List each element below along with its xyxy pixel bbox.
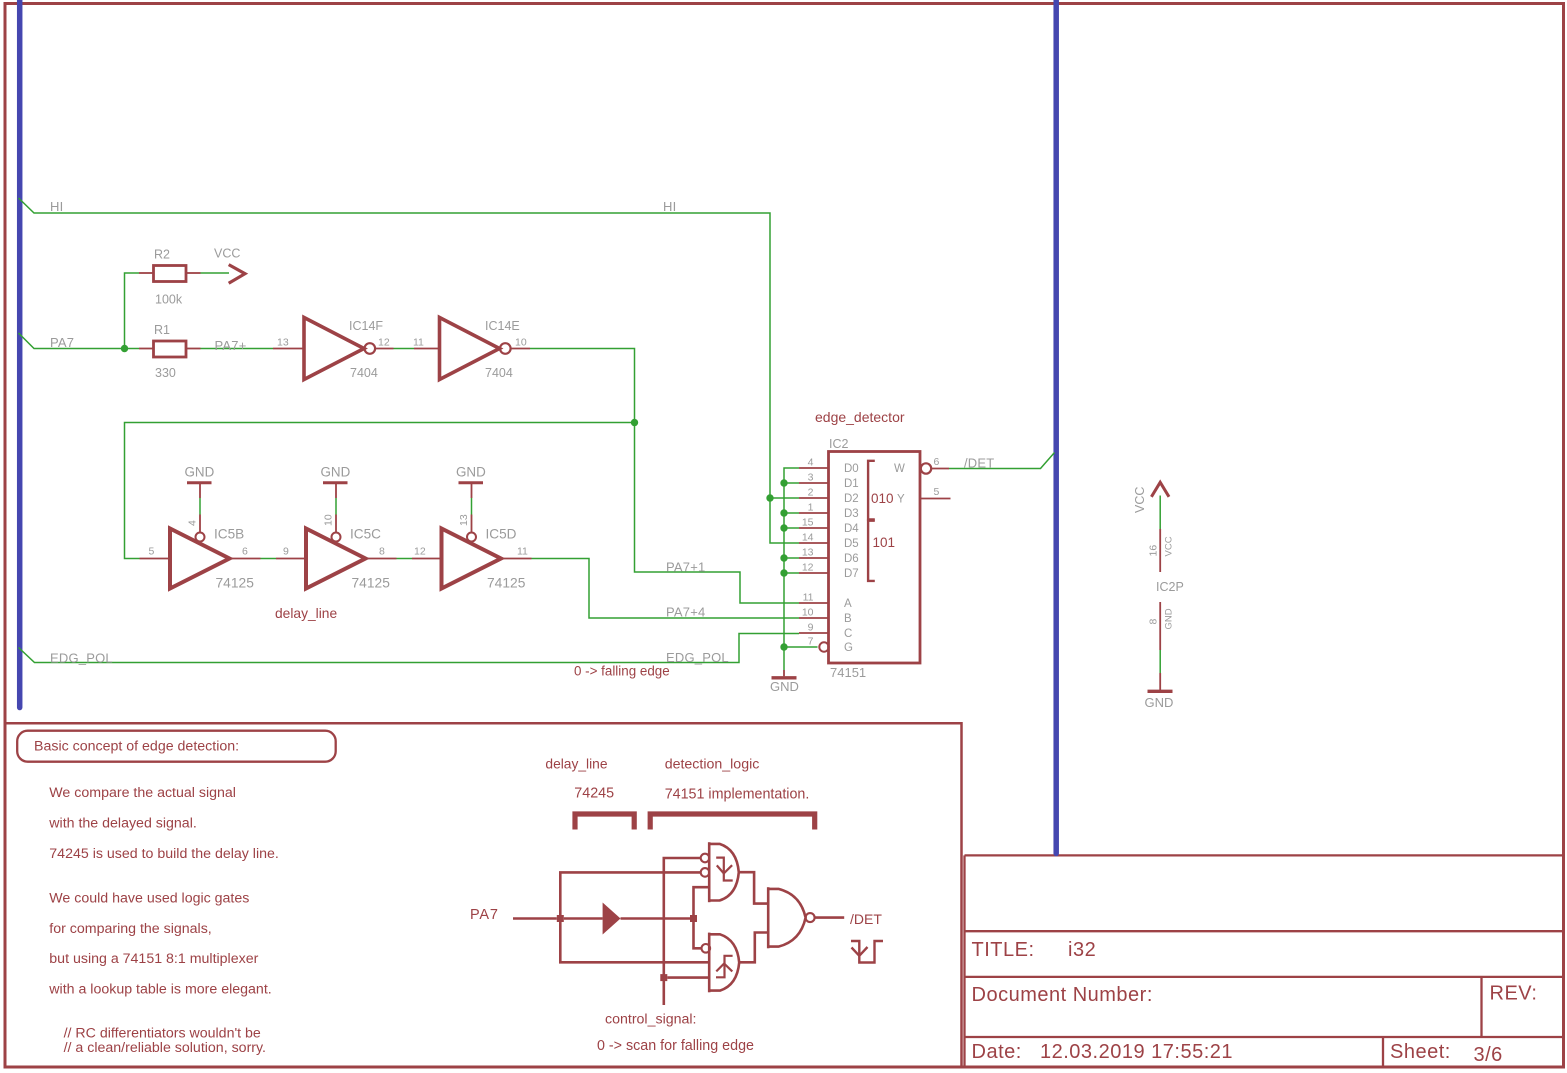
svg-text:101: 101 xyxy=(873,535,896,550)
svg-text:11: 11 xyxy=(413,337,424,349)
svg-text:PA7+: PA7+ xyxy=(215,338,247,353)
svg-text:6: 6 xyxy=(934,456,940,468)
svg-text:edge_detector: edge_detector xyxy=(815,409,905,425)
svg-text:74125: 74125 xyxy=(216,576,255,591)
svg-text:PA7: PA7 xyxy=(50,335,74,350)
svg-text:delay_line: delay_line xyxy=(545,757,607,772)
svg-text:12: 12 xyxy=(378,337,390,349)
svg-text:7404: 7404 xyxy=(485,366,513,380)
svg-text:with the delayed signal.: with the delayed signal. xyxy=(48,815,197,831)
svg-text:5: 5 xyxy=(149,546,155,558)
svg-text:D4: D4 xyxy=(844,523,859,535)
svg-text:9: 9 xyxy=(808,622,814,634)
svg-text:We could have used logic gates: We could have used logic gates xyxy=(49,891,249,907)
svg-text:W: W xyxy=(894,463,905,475)
svg-text:TITLE:: TITLE: xyxy=(972,939,1035,961)
svg-text:7404: 7404 xyxy=(350,366,378,380)
svg-text:13: 13 xyxy=(277,337,289,349)
svg-text:We compare the actual signal: We compare the actual signal xyxy=(49,785,236,801)
svg-text:VCC: VCC xyxy=(1164,536,1175,556)
svg-text:74245: 74245 xyxy=(574,786,614,802)
svg-text:IC2: IC2 xyxy=(829,437,849,451)
svg-text:10: 10 xyxy=(515,337,527,349)
svg-text:12.03.2019 17:55:21: 12.03.2019 17:55:21 xyxy=(1040,1041,1233,1063)
svg-text:Document Number:: Document Number: xyxy=(972,984,1153,1006)
svg-text:delay_line: delay_line xyxy=(275,606,337,621)
svg-text:0 -> scan for falling edge: 0 -> scan for falling edge xyxy=(597,1038,754,1054)
svg-text:VCC: VCC xyxy=(1133,487,1147,513)
svg-text:74125: 74125 xyxy=(487,576,526,591)
svg-text:1: 1 xyxy=(808,502,814,514)
svg-text:HI: HI xyxy=(663,199,676,214)
svg-text:6: 6 xyxy=(242,546,248,558)
svg-text:11: 11 xyxy=(517,546,528,558)
svg-text:IC14E: IC14E xyxy=(485,319,520,333)
svg-text:D1: D1 xyxy=(844,478,859,490)
svg-text:GND: GND xyxy=(1164,608,1175,629)
svg-text:// a clean/reliable solution,: // a clean/reliable solution, sorry. xyxy=(64,1040,266,1056)
svg-text:PA7: PA7 xyxy=(470,907,499,923)
svg-text:control_signal:: control_signal: xyxy=(605,1012,697,1028)
svg-text:4: 4 xyxy=(187,520,199,526)
svg-text:GND: GND xyxy=(456,465,486,480)
svg-text:D2: D2 xyxy=(844,493,859,505)
svg-text:but using a 74151 8:1 multiple: but using a 74151 8:1 multiplexer xyxy=(49,951,258,967)
svg-text:8: 8 xyxy=(1148,619,1160,625)
svg-text:10: 10 xyxy=(802,607,814,619)
svg-text:13: 13 xyxy=(458,514,470,526)
svg-text:Sheet:: Sheet: xyxy=(1390,1041,1451,1063)
svg-text:HI: HI xyxy=(50,199,63,214)
svg-text:2: 2 xyxy=(808,487,814,499)
svg-text:IC5B: IC5B xyxy=(214,527,244,542)
svg-text:10: 10 xyxy=(323,514,335,526)
svg-text:A: A xyxy=(844,598,852,610)
svg-text:4: 4 xyxy=(808,457,814,469)
svg-text:D3: D3 xyxy=(844,508,859,520)
svg-text:/DET: /DET xyxy=(850,911,882,927)
svg-text:13: 13 xyxy=(802,547,814,559)
svg-text:IC5D: IC5D xyxy=(486,527,517,542)
svg-text:R2: R2 xyxy=(154,248,170,262)
svg-text:Date:: Date: xyxy=(972,1041,1022,1063)
svg-text:with a lookup table is more el: with a lookup table is more elegant. xyxy=(48,982,271,998)
svg-text:15: 15 xyxy=(802,517,814,529)
svg-text:for comparing the signals,: for comparing the signals, xyxy=(49,921,211,937)
svg-text:IC5C: IC5C xyxy=(350,527,381,542)
svg-text:74125: 74125 xyxy=(352,576,391,591)
svg-text:GND: GND xyxy=(185,465,215,480)
svg-text:EDG_POL: EDG_POL xyxy=(666,650,729,665)
svg-text:GND: GND xyxy=(321,465,351,480)
svg-text:12: 12 xyxy=(414,546,426,558)
svg-text:7: 7 xyxy=(808,636,814,648)
svg-text:GND: GND xyxy=(770,679,799,694)
svg-text:PA7+4: PA7+4 xyxy=(666,605,705,620)
svg-text:PA7+1: PA7+1 xyxy=(666,560,705,575)
svg-text:74151: 74151 xyxy=(830,665,866,680)
svg-text:R1: R1 xyxy=(154,323,170,337)
svg-text:12: 12 xyxy=(802,562,814,574)
svg-text:D0: D0 xyxy=(844,463,859,475)
svg-text:IC14F: IC14F xyxy=(349,319,383,333)
svg-text:Y: Y xyxy=(897,494,905,506)
svg-text:detection_logic: detection_logic xyxy=(665,757,760,773)
svg-text:EDG_POL: EDG_POL xyxy=(50,651,113,666)
svg-text:010: 010 xyxy=(871,491,894,506)
svg-text:330: 330 xyxy=(155,366,176,380)
svg-text:D6: D6 xyxy=(844,553,859,565)
svg-text:IC2P: IC2P xyxy=(1156,580,1184,594)
svg-text:GND: GND xyxy=(1145,695,1174,710)
svg-text:B: B xyxy=(844,613,852,625)
svg-text:/DET: /DET xyxy=(964,456,994,471)
svg-text:14: 14 xyxy=(802,532,814,544)
svg-text:100k: 100k xyxy=(155,293,183,307)
svg-text:11: 11 xyxy=(803,592,814,604)
svg-text:3: 3 xyxy=(808,472,814,484)
svg-text:5: 5 xyxy=(934,486,940,498)
svg-text:3/6: 3/6 xyxy=(1474,1044,1503,1066)
svg-text:16: 16 xyxy=(1148,545,1160,557)
svg-text:74245 is used to build the del: 74245 is used to build the delay line. xyxy=(49,846,279,862)
svg-text:i32: i32 xyxy=(1068,939,1096,961)
svg-text:G: G xyxy=(844,642,853,654)
svg-text:0 -> falling edge: 0 -> falling edge xyxy=(574,664,670,679)
svg-text:9: 9 xyxy=(283,546,289,558)
svg-text:REV:: REV: xyxy=(1490,983,1538,1005)
svg-text:8: 8 xyxy=(379,546,385,558)
svg-text:VCC: VCC xyxy=(214,247,240,261)
svg-text:D7: D7 xyxy=(844,568,859,580)
svg-text:74151 implementation.: 74151 implementation. xyxy=(665,787,810,803)
svg-text:Basic concept of edge detectio: Basic concept of edge detection: xyxy=(34,739,239,755)
svg-text:D5: D5 xyxy=(844,538,859,550)
svg-text:C: C xyxy=(844,628,852,640)
